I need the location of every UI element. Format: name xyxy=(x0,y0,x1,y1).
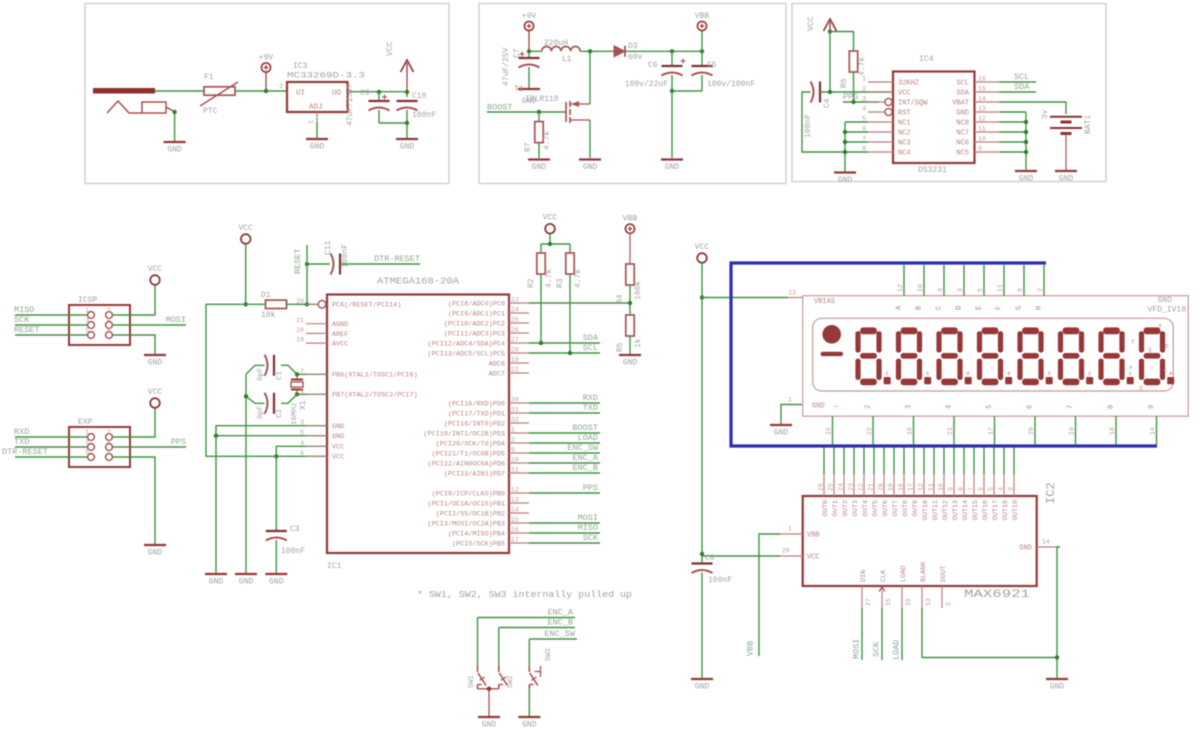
svg-text:25: 25 xyxy=(828,483,835,491)
svg-text:VCC: VCC xyxy=(386,41,395,56)
net SDA label xyxy=(1000,82,1037,92)
net TXD label (EXP) xyxy=(14,437,87,447)
svg-text:29: 29 xyxy=(296,298,304,305)
wire bus to OUT19 xyxy=(1013,448,1015,475)
net BOOST wire from PD3 xyxy=(529,423,600,433)
svg-text:9: 9 xyxy=(1148,405,1156,409)
wire bus to OUT4 xyxy=(863,448,865,475)
svg-text:8pF: 8pF xyxy=(257,405,265,419)
net SDA wire from PC4 xyxy=(529,333,600,345)
ground T1 GND xyxy=(579,160,601,173)
svg-text:AREF: AREF xyxy=(332,331,348,339)
svg-text:C: C xyxy=(936,306,944,310)
svg-text:VCC: VCC xyxy=(332,454,344,462)
svg-text:(PCI11/ADC3)PC3: (PCI11/ADC3)PC3 xyxy=(444,330,505,338)
connector ICSP header xyxy=(69,296,130,345)
wire bus to OUT6 xyxy=(883,448,885,475)
net MOSI wire from PB3 xyxy=(529,513,600,523)
svg-text:20: 20 xyxy=(296,327,304,334)
display grid pin (pin 19) xyxy=(1067,405,1076,445)
svg-text:(PCI21/T1/OC0B)PD5: (PCI21/T1/OC0B)PD5 xyxy=(432,450,505,458)
svg-text:(PCI0/ICP/CLKO)PB0: (PCI0/ICP/CLKO)PB0 xyxy=(432,490,505,498)
ground IC4 right GND xyxy=(1015,171,1037,184)
svg-text:SCK: SCK xyxy=(583,533,599,543)
svg-text:PPS: PPS xyxy=(843,92,858,102)
ground IC3 GND xyxy=(306,139,328,152)
svg-text:14: 14 xyxy=(978,96,986,103)
frame box 3 (RTC section) xyxy=(792,4,1106,182)
svg-text:OUT8: OUT8 xyxy=(902,500,910,516)
transistor T1 IRLR110 n-mosfet xyxy=(514,85,590,123)
wire bus to OUT14 xyxy=(963,448,965,475)
supply VCC (reset pullup) xyxy=(238,224,253,244)
svg-text:100v/22uF: 100v/22uF xyxy=(625,80,668,89)
svg-text:EXP: EXP xyxy=(78,418,93,427)
svg-text:+9V: +9V xyxy=(259,54,274,63)
svg-text:VFD_IV18: VFD_IV18 xyxy=(1148,306,1187,315)
svg-text:13: 13 xyxy=(925,598,932,606)
svg-text:1: 1 xyxy=(85,429,89,436)
svg-text:OUT4: OUT4 xyxy=(862,500,870,516)
svg-text:5: 5 xyxy=(986,405,994,409)
svg-text:9: 9 xyxy=(978,146,982,153)
svg-text:SCL: SCL xyxy=(583,343,598,353)
svg-text:7: 7 xyxy=(968,487,975,491)
net RXD wire from PD0 xyxy=(529,393,600,403)
svg-text:d: d xyxy=(1139,385,1143,392)
svg-text:6: 6 xyxy=(107,449,111,456)
svg-text:(PCI18/INT0)PD2: (PCI18/INT0)PD2 xyxy=(444,420,505,428)
svg-text:VBIAS: VBIAS xyxy=(814,298,835,306)
svg-text:12: 12 xyxy=(897,284,904,292)
net ENC_A wire from PD6 xyxy=(529,453,600,463)
svg-text:VBB: VBB xyxy=(807,532,820,540)
svg-text:ADC6: ADC6 xyxy=(489,360,505,368)
wire GND/NC8-NC5 chain to GND xyxy=(1000,112,1029,170)
svg-text:SDA: SDA xyxy=(583,333,599,343)
svg-text:OUT3: OUT3 xyxy=(852,500,860,516)
capacitor C7 47uF/25V xyxy=(502,47,540,88)
svg-text:SW1: SW1 xyxy=(468,675,476,688)
net ENC_B wire from PD7 xyxy=(529,463,600,473)
display grid pin (pin 22) xyxy=(865,405,874,445)
wire bus to OUT12 xyxy=(943,448,945,475)
wire VBIAS pin 13 xyxy=(702,290,803,298)
wire +9V to L1 and C7 xyxy=(527,49,542,53)
svg-text:0: 0 xyxy=(967,371,970,377)
display digit 5 seven-segment xyxy=(1017,327,1052,385)
svg-text:BOOST: BOOST xyxy=(572,423,598,433)
net MISO wire from PB4 xyxy=(529,523,600,533)
svg-text:47uF/25V: 47uF/25V xyxy=(346,87,355,126)
capacitor C6 100v/22uF xyxy=(625,51,686,91)
svg-text:e: e xyxy=(1129,364,1133,371)
svg-text:VCC: VCC xyxy=(332,444,344,452)
svg-text:3v: 3v xyxy=(1041,109,1050,119)
svg-text:100nF: 100nF xyxy=(412,111,436,120)
svg-text:1: 1 xyxy=(511,427,515,434)
wire NC1-NC4 chain to GND xyxy=(843,122,868,172)
svg-text:23: 23 xyxy=(511,297,519,304)
svg-text:OUT9: OUT9 xyxy=(912,500,920,516)
svg-text:2: 2 xyxy=(945,602,952,606)
note switches internally pulled up xyxy=(417,589,632,600)
svg-text:(PCI17/TXD)PD1: (PCI17/TXD)PD1 xyxy=(448,410,505,418)
display segment pin A (pin 12) xyxy=(896,265,905,310)
svg-text:3: 3 xyxy=(862,96,866,103)
svg-text:TXD: TXD xyxy=(14,437,29,447)
ground MAX6921 GND xyxy=(1046,679,1068,692)
svg-text:ICSP: ICSP xyxy=(78,296,97,305)
wire ICSP pin2 to VCC xyxy=(112,285,155,315)
svg-text:14: 14 xyxy=(511,507,519,514)
svg-text:13: 13 xyxy=(978,106,986,113)
svg-text:2: 2 xyxy=(886,371,889,377)
display segment pin F (pin 11) xyxy=(996,265,1005,310)
wire bus to OUT2 xyxy=(843,448,845,475)
wire bus to OUT3 xyxy=(853,448,855,475)
capacitor C2 8pF xyxy=(246,393,297,419)
svg-text:GND: GND xyxy=(583,163,598,172)
svg-text:MOSI: MOSI xyxy=(578,513,598,523)
wire bus to OUT13 xyxy=(953,448,955,475)
wire ICSP pin6 to GND xyxy=(112,335,155,354)
wire C6/C5 bottoms to GND xyxy=(670,89,702,158)
svg-text:DTR-RESET: DTR-RESET xyxy=(2,447,48,457)
svg-text:F1: F1 xyxy=(204,73,214,82)
svg-text:OUT15: OUT15 xyxy=(972,500,980,520)
svg-text:15: 15 xyxy=(885,598,892,606)
svg-text:UO: UO xyxy=(332,90,342,98)
svg-text:4: 4 xyxy=(300,440,304,447)
svg-text:LOAD: LOAD xyxy=(578,433,598,443)
svg-text:VCC: VCC xyxy=(148,265,163,274)
wire bus to OUT1 xyxy=(833,448,835,475)
svg-text:BAT1: BAT1 xyxy=(1084,115,1093,134)
svg-text:ENC_A: ENC_A xyxy=(547,608,573,618)
net SCK wire from PB5 xyxy=(529,533,600,543)
svg-text:VBB: VBB xyxy=(695,12,710,21)
wire SW3 to GND xyxy=(528,689,530,716)
rtc IC4 DS3231 xyxy=(862,55,999,175)
capacitor C5 100v/100nF xyxy=(692,51,756,91)
wire D3 to C6 C5 VBB xyxy=(625,31,704,54)
svg-text:IC2: IC2 xyxy=(1044,482,1058,504)
svg-text:B: B xyxy=(916,306,924,310)
svg-text:26: 26 xyxy=(818,483,825,491)
svg-text:5: 5 xyxy=(977,288,984,292)
svg-text:GND: GND xyxy=(532,163,547,172)
wire crystal to PB7 xyxy=(295,392,327,396)
svg-text:C2: C2 xyxy=(276,409,284,418)
svg-text:4.7k: 4.7k xyxy=(543,131,552,150)
frame box 2 (boost converter section) xyxy=(479,4,786,184)
net SCK wire (MAX CLK) xyxy=(872,608,883,660)
svg-text:DS3231: DS3231 xyxy=(918,166,947,175)
net MOSI label xyxy=(112,315,186,325)
svg-text:19: 19 xyxy=(511,357,519,364)
ground C7 GND xyxy=(518,89,540,106)
svg-text:10: 10 xyxy=(978,136,986,143)
svg-text:GND: GND xyxy=(956,110,969,118)
wire jack to F1 xyxy=(155,90,204,92)
svg-text:GND: GND xyxy=(1019,545,1032,553)
svg-text:ENC_A: ENC_A xyxy=(572,453,598,463)
svg-text:D: D xyxy=(956,306,964,310)
svg-text:6: 6 xyxy=(978,487,985,491)
svg-text:4: 4 xyxy=(1169,371,1172,377)
svg-text:4: 4 xyxy=(946,405,954,409)
svg-text:R2: R2 xyxy=(527,278,536,288)
display VFD_IV18 outline xyxy=(803,296,1188,417)
switch SW3 xyxy=(529,639,553,689)
svg-text:4.7k: 4.7k xyxy=(858,57,867,76)
svg-text:GND: GND xyxy=(695,683,710,692)
wire bus to OUT0 xyxy=(823,448,825,475)
battery BAT1 3v xyxy=(1041,109,1093,170)
svg-text:TXD: TXD xyxy=(583,403,598,413)
svg-text:(PCI23/AIN1)PD7: (PCI23/AIN1)PD7 xyxy=(444,470,505,478)
wire EXP pin6 to GND xyxy=(112,457,155,544)
resistor R5 1k xyxy=(616,315,643,354)
svg-text:4: 4 xyxy=(998,487,1005,491)
svg-text:C10: C10 xyxy=(412,92,427,101)
svg-text:OUT19: OUT19 xyxy=(1012,500,1020,520)
svg-text:INT/SQW: INT/SQW xyxy=(898,100,928,108)
wire VBAT to battery xyxy=(1000,102,1067,114)
ground C8 GND xyxy=(691,679,713,692)
svg-text:17: 17 xyxy=(908,483,915,491)
ground IC1 GND xyxy=(205,574,227,587)
svg-text:RXD: RXD xyxy=(14,427,29,437)
svg-text:GND: GND xyxy=(623,359,638,368)
svg-text:GND: GND xyxy=(310,143,325,152)
svg-text:E: E xyxy=(976,306,984,310)
svg-text:GND: GND xyxy=(148,359,163,368)
svg-text:9: 9 xyxy=(511,447,515,454)
ground C10 GND xyxy=(396,139,418,152)
ground SW3 GND xyxy=(518,717,540,730)
wire crystal to PB6 xyxy=(295,372,327,376)
display segment pin G (pin 8) xyxy=(1016,265,1025,310)
wire bus to OUT9 xyxy=(913,448,915,475)
svg-text:31: 31 xyxy=(511,407,519,414)
svg-text:16: 16 xyxy=(978,76,986,83)
capacitor C3 100nF xyxy=(266,456,305,573)
svg-text:GND: GND xyxy=(400,143,415,152)
svg-text:GND: GND xyxy=(838,176,853,185)
display segment pin C (pin 4) xyxy=(936,265,945,310)
svg-text:3: 3 xyxy=(85,317,89,324)
svg-text:SW2: SW2 xyxy=(507,675,515,688)
mcu IC1 ATMEGA168-20A xyxy=(296,277,509,572)
svg-text:DIN: DIN xyxy=(860,570,868,582)
svg-text:NC6: NC6 xyxy=(956,140,969,148)
svg-text:C7: C7 xyxy=(513,48,522,58)
svg-text:15: 15 xyxy=(826,427,833,435)
switch SW2 xyxy=(499,628,515,689)
svg-text:14: 14 xyxy=(1042,539,1050,546)
svg-text:(PCI20/XCK/T0)PD4: (PCI20/XCK/T0)PD4 xyxy=(436,440,505,448)
crystal X1 16MHz xyxy=(291,374,308,425)
svg-text:MOSI: MOSI xyxy=(852,639,862,659)
display grid pin (pin 15) xyxy=(826,416,833,444)
svg-text:ENC_B: ENC_B xyxy=(547,618,573,628)
svg-text:8: 8 xyxy=(1017,288,1024,292)
svg-text:6: 6 xyxy=(300,450,304,457)
svg-text:1k: 1k xyxy=(634,338,643,348)
net PPS label (EXP) xyxy=(112,437,186,447)
svg-text:GND: GND xyxy=(332,423,344,431)
supply VBB (divider) xyxy=(623,215,638,264)
svg-text:AGND: AGND xyxy=(332,321,348,329)
ground R7 GND xyxy=(528,160,550,173)
svg-text:(PCI8/ADC0)PC0: (PCI8/ADC0)PC0 xyxy=(448,300,505,308)
capacitor C4 100nF xyxy=(804,82,832,139)
net SCL label xyxy=(1000,72,1037,82)
svg-text:3: 3 xyxy=(85,439,89,446)
svg-text:GND: GND xyxy=(148,549,163,558)
wire VCC to R6 and C4 node xyxy=(828,29,854,92)
supply VCC (I2C pullups) xyxy=(543,214,558,234)
ground C6 GND xyxy=(661,160,683,173)
svg-text:VCC: VCC xyxy=(543,214,558,223)
net RXD label (EXP) xyxy=(14,427,87,437)
svg-text:16: 16 xyxy=(905,598,912,606)
svg-text:1: 1 xyxy=(788,526,792,533)
svg-text:T1: T1 xyxy=(514,85,524,94)
svg-text:VCC: VCC xyxy=(695,243,710,252)
capacitor C9 47uF/25V xyxy=(346,87,390,126)
svg-text:5: 5 xyxy=(300,429,304,436)
svg-text:4: 4 xyxy=(1007,371,1010,377)
svg-text:18: 18 xyxy=(1109,427,1116,435)
wire IC3 output to VCC node xyxy=(348,90,410,97)
wire VCC down to D1 xyxy=(244,244,248,306)
svg-text:100nF: 100nF xyxy=(281,547,305,556)
svg-text:GND: GND xyxy=(1158,296,1173,305)
svg-text:32: 32 xyxy=(511,417,519,424)
svg-text:GND: GND xyxy=(482,721,497,730)
svg-text:GND: GND xyxy=(812,403,825,411)
svg-text:21: 21 xyxy=(868,483,875,491)
svg-text:MISO: MISO xyxy=(14,305,34,315)
display segment pin D (pin 3) xyxy=(956,265,965,310)
wire bus to OUT18 xyxy=(1003,448,1005,475)
svg-text:X1: X1 xyxy=(299,400,308,410)
svg-text:100nF: 100nF xyxy=(708,576,732,585)
svg-text:ENC_SW: ENC_SW xyxy=(567,443,599,453)
resistor R4 100k xyxy=(616,264,643,315)
wire BLANK to GND xyxy=(922,608,1057,658)
svg-text:6: 6 xyxy=(107,327,111,334)
svg-text:16: 16 xyxy=(907,427,914,435)
svg-text:NC7: NC7 xyxy=(956,130,969,138)
svg-text:8pF: 8pF xyxy=(257,367,265,381)
display digit 3 seven-segment xyxy=(936,327,971,385)
display segment letters around last digit xyxy=(1129,322,1169,392)
svg-text:18: 18 xyxy=(296,337,304,344)
svg-text:R6: R6 xyxy=(840,78,849,88)
svg-text:NC8: NC8 xyxy=(956,120,969,128)
ground jack GND xyxy=(164,142,186,155)
wire C4 left to NC4 row xyxy=(802,92,845,152)
wire bus to OUT5 xyxy=(873,448,875,475)
svg-text:C5: C5 xyxy=(707,61,717,70)
svg-text:27: 27 xyxy=(511,337,519,344)
svg-text:32KHZ: 32KHZ xyxy=(898,80,919,88)
svg-text:VCC: VCC xyxy=(807,16,816,31)
net PPS wire from PB0 xyxy=(529,483,600,493)
svg-text:14: 14 xyxy=(1150,427,1157,435)
resistor R2 4.7k xyxy=(527,253,554,343)
svg-text:CLK: CLK xyxy=(880,569,888,582)
wire SW1 SW2 commons to GND xyxy=(478,687,499,716)
svg-text:IRLR110: IRLR110 xyxy=(525,95,559,104)
svg-text:C6: C6 xyxy=(648,61,658,70)
svg-text:NC1: NC1 xyxy=(898,120,911,128)
svg-text:ADC7: ADC7 xyxy=(489,370,505,378)
svg-text:15: 15 xyxy=(511,517,519,524)
svg-text:(PCI13/ADC5/SCL)PC5: (PCI13/ADC5/SCL)PC5 xyxy=(428,350,506,358)
svg-text:11: 11 xyxy=(997,284,1004,292)
diode D3 60v xyxy=(614,42,643,62)
svg-text:C1: C1 xyxy=(276,370,284,380)
svg-text:10: 10 xyxy=(511,457,519,464)
net DTR-RESET label (C11) xyxy=(341,254,421,264)
net ENC_B wire to SW2 xyxy=(499,618,575,628)
wire bus to OUT7 xyxy=(893,448,895,475)
wire IC1 GND pins to GND xyxy=(214,426,327,573)
svg-text:8: 8 xyxy=(958,487,965,491)
svg-text:* SW1, SW2, SW3 internally pul: * SW1, SW2, SW3 internally pulled up xyxy=(417,589,632,600)
svg-text:SCK: SCK xyxy=(872,641,882,657)
svg-text:GND: GND xyxy=(167,146,182,155)
wire C4 to VCC node and IC4 VCC pin xyxy=(821,90,894,94)
wire C9/C10 bottoms xyxy=(379,121,409,138)
svg-text:(PCI22/AIN0OC0A)PD6: (PCI22/AIN0OC0A)PD6 xyxy=(428,460,506,468)
display grid pin (pin 21) xyxy=(946,405,955,445)
net TXD wire from PD1 xyxy=(529,403,600,413)
svg-text:R7: R7 xyxy=(524,142,533,152)
svg-text:25: 25 xyxy=(511,317,519,324)
svg-text:5: 5 xyxy=(85,327,89,334)
display segment pin H (pin 2) xyxy=(1036,265,1045,310)
svg-text:R3: R3 xyxy=(556,278,565,288)
mcu IC1 right pin stubs xyxy=(423,297,529,549)
svg-text:4.7k: 4.7k xyxy=(574,269,583,288)
svg-text:100k: 100k xyxy=(634,281,643,300)
svg-text:OUT1: OUT1 xyxy=(832,500,840,516)
svg-text:3: 3 xyxy=(1048,371,1051,377)
svg-text:C8: C8 xyxy=(705,554,715,563)
svg-text:20: 20 xyxy=(1028,427,1035,435)
svg-text:LOAD: LOAD xyxy=(892,640,902,660)
bus display interconnect (blue) xyxy=(731,263,1157,446)
svg-text:ATMEGA168-20A: ATMEGA168-20A xyxy=(377,277,460,287)
svg-text:20: 20 xyxy=(878,483,885,491)
svg-text:ENC_B: ENC_B xyxy=(572,463,598,473)
svg-text:OUT16: OUT16 xyxy=(982,500,990,520)
ground BAT1 GND xyxy=(1055,171,1077,184)
svg-text:SCK: SCK xyxy=(14,315,30,325)
svg-text:7: 7 xyxy=(1067,405,1075,409)
svg-text:PPS: PPS xyxy=(583,483,598,493)
supply VCC (display area) xyxy=(695,243,710,263)
svg-text:OUT12: OUT12 xyxy=(942,500,950,520)
fuse F1 PTC xyxy=(200,73,238,116)
wire bus to OUT8 xyxy=(903,448,905,475)
